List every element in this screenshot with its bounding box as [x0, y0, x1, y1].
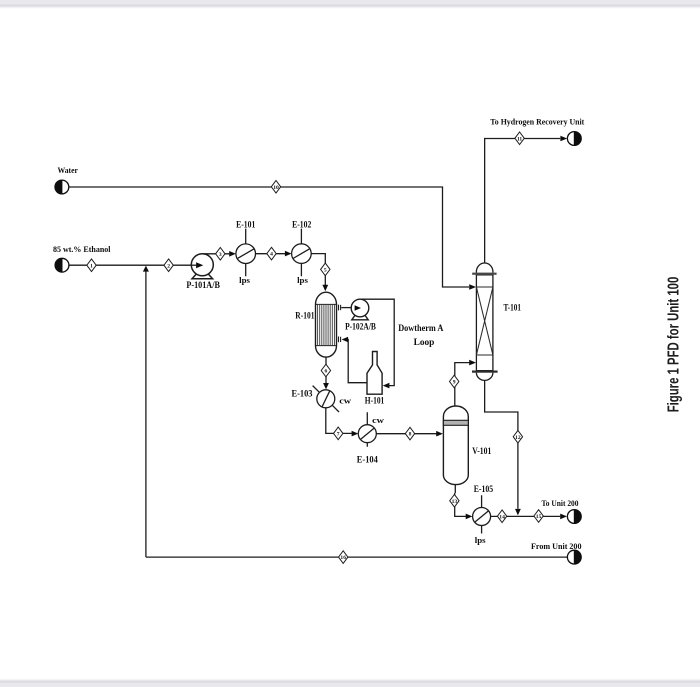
wire: dowtherm suction R-101 to P-102 [341, 307, 355, 309]
svg-text:To Hydrogen Recovery Unit: To Hydrogen Recovery Unit [490, 118, 584, 127]
node stream 9 [450, 375, 459, 388]
vessel V-101 [443, 406, 468, 485]
R-101 nozzle flanges [339, 305, 341, 343]
svg-text:E-102: E-102 [292, 219, 312, 229]
exchanger E-103 [313, 386, 339, 412]
T-101 bottom flange [472, 371, 498, 373]
arrow junction recycle up [143, 266, 149, 272]
arrow into P-102 [355, 305, 361, 310]
svg-text:9: 9 [453, 380, 456, 386]
column T-101 [476, 263, 493, 380]
exchanger E-102 [292, 229, 312, 277]
node stream 5 [321, 263, 330, 276]
arrow into E-102 [285, 251, 292, 257]
svg-text:P-101A/B: P-101A/B [186, 280, 220, 290]
node stream 1 [87, 259, 96, 272]
exchanger E-101 [236, 229, 256, 277]
exchanger E-104 [358, 412, 376, 447]
arrow into T-101 lower feed [469, 360, 476, 366]
svg-text:Figure 1 PFD for Unit 100: Figure 1 PFD for Unit 100 [666, 277, 683, 413]
svg-text:85 wt.% Ethanol: 85 wt.% Ethanol [53, 245, 111, 254]
stream input symbol: from unit 200 [567, 550, 581, 564]
arrow into E-104 [352, 431, 359, 437]
wire: P-102 discharge to H-101 [360, 299, 394, 385]
node stream 16 [339, 551, 348, 564]
V-101 demister pad [443, 420, 468, 425]
svg-text:lps: lps [239, 276, 250, 285]
node stream 8 [405, 427, 414, 440]
wire: from unit 200 line [146, 556, 567, 558]
wire: V-101 bottoms to E-105 [455, 485, 466, 517]
node stream 11 [515, 132, 524, 145]
reactor R-101 [316, 292, 337, 357]
svg-text:16: 16 [340, 555, 346, 561]
svg-text:1: 1 [90, 263, 93, 269]
svg-text:Water: Water [58, 166, 79, 175]
svg-text:V-101: V-101 [472, 446, 491, 456]
svg-text:R-101: R-101 [295, 311, 315, 321]
svg-text:H-101: H-101 [365, 395, 385, 405]
arrow into H-101 right [383, 383, 390, 389]
svg-text:P-102A/B: P-102A/B [345, 322, 376, 332]
node stream 13 [450, 494, 459, 507]
stream output symbol: to unit 200 [567, 510, 581, 524]
pump P-101A/B [191, 254, 213, 279]
node stream 2 [164, 259, 173, 272]
arrow into E-105 [466, 514, 473, 520]
svg-text:8: 8 [409, 432, 412, 438]
svg-text:2: 2 [167, 263, 170, 269]
svg-text:7: 7 [337, 432, 340, 438]
svg-text:lps: lps [475, 536, 486, 545]
node stream 4 [267, 247, 276, 260]
svg-text:E-101: E-101 [236, 219, 256, 229]
top gray band [0, 0, 700, 5]
node stream 12 [513, 430, 522, 443]
wire: H-101 return to R-101 [348, 340, 367, 383]
stream diamonds [87, 132, 544, 563]
node stream 10 [271, 181, 280, 194]
wire: E-101 to E-102 [256, 253, 286, 255]
svg-text:T-101: T-101 [504, 302, 522, 312]
node stream 7 [334, 427, 343, 440]
node stream 3 [216, 248, 225, 261]
wire: T-101 bottoms [485, 380, 518, 509]
wire: T-101 overhead [485, 139, 561, 264]
fired heater H-101 [367, 352, 382, 395]
wire: E-104 outlet to V-101 [376, 433, 436, 435]
node stream 14 [497, 510, 506, 523]
svg-text:15: 15 [536, 514, 542, 520]
svg-text:12: 12 [515, 435, 521, 441]
svg-text:4: 4 [270, 252, 273, 258]
pump P-102A/B [351, 299, 369, 320]
arrow T-101 bottoms junction down [515, 509, 521, 516]
stream output symbol: hydrogen [567, 132, 581, 146]
wire: ethanol feed line [69, 264, 197, 266]
wire: V-101 overhead to T-101 [455, 363, 470, 406]
arrow into R-101 side nozzle [342, 337, 349, 342]
svg-text:From Unit 200: From Unit 200 [531, 542, 582, 551]
arrow into E-101 [229, 251, 236, 257]
arrow into unit200 outlet [560, 514, 567, 520]
arrow into T-101 water feed [469, 284, 476, 290]
svg-text:13: 13 [452, 499, 458, 505]
wire: E-105 outlet to unit 200 [491, 515, 561, 517]
svg-text:3: 3 [219, 252, 222, 258]
svg-text:E-103: E-103 [292, 388, 313, 398]
arrow into V-101 [436, 431, 443, 437]
svg-text:To Unit 200: To Unit 200 [542, 499, 579, 508]
svg-text:14: 14 [499, 514, 505, 520]
svg-text:Loop: Loop [414, 337, 435, 347]
stream input symbol: ethanol [55, 258, 69, 272]
arrow into hydrogen outlet [560, 136, 567, 142]
node stream 6 [321, 364, 330, 377]
stream input symbol: water [55, 180, 69, 194]
svg-text:Dowtherm A: Dowtherm A [398, 323, 444, 333]
svg-text:6: 6 [325, 369, 328, 375]
bottom gray band [0, 679, 700, 682]
svg-text:10: 10 [273, 185, 279, 191]
svg-text:E-105: E-105 [474, 484, 494, 494]
svg-text:11: 11 [517, 136, 522, 142]
T-101 top flange [472, 273, 496, 275]
svg-text:5: 5 [324, 268, 327, 274]
wire: R-101 bottoms to E-103 [325, 357, 327, 383]
wire: P-101 discharge [202, 253, 229, 255]
wire: water line [69, 187, 469, 287]
exchanger E-105 [473, 495, 491, 533]
wire: E-102 outlet to R-101 [311, 254, 325, 286]
svg-text:E-104: E-104 [357, 455, 378, 465]
svg-text:lps: lps [297, 276, 308, 285]
arrow into E-103 [323, 383, 329, 389]
wire: recycle riser [145, 271, 147, 557]
svg-text:cw: cw [372, 416, 384, 425]
wire: E-103 outlet to E-104 [326, 408, 352, 434]
arrow into R-101 top [322, 285, 328, 291]
T-101 packing X [476, 287, 493, 355]
node stream 15 [534, 510, 543, 523]
svg-text:cw: cw [339, 396, 351, 405]
